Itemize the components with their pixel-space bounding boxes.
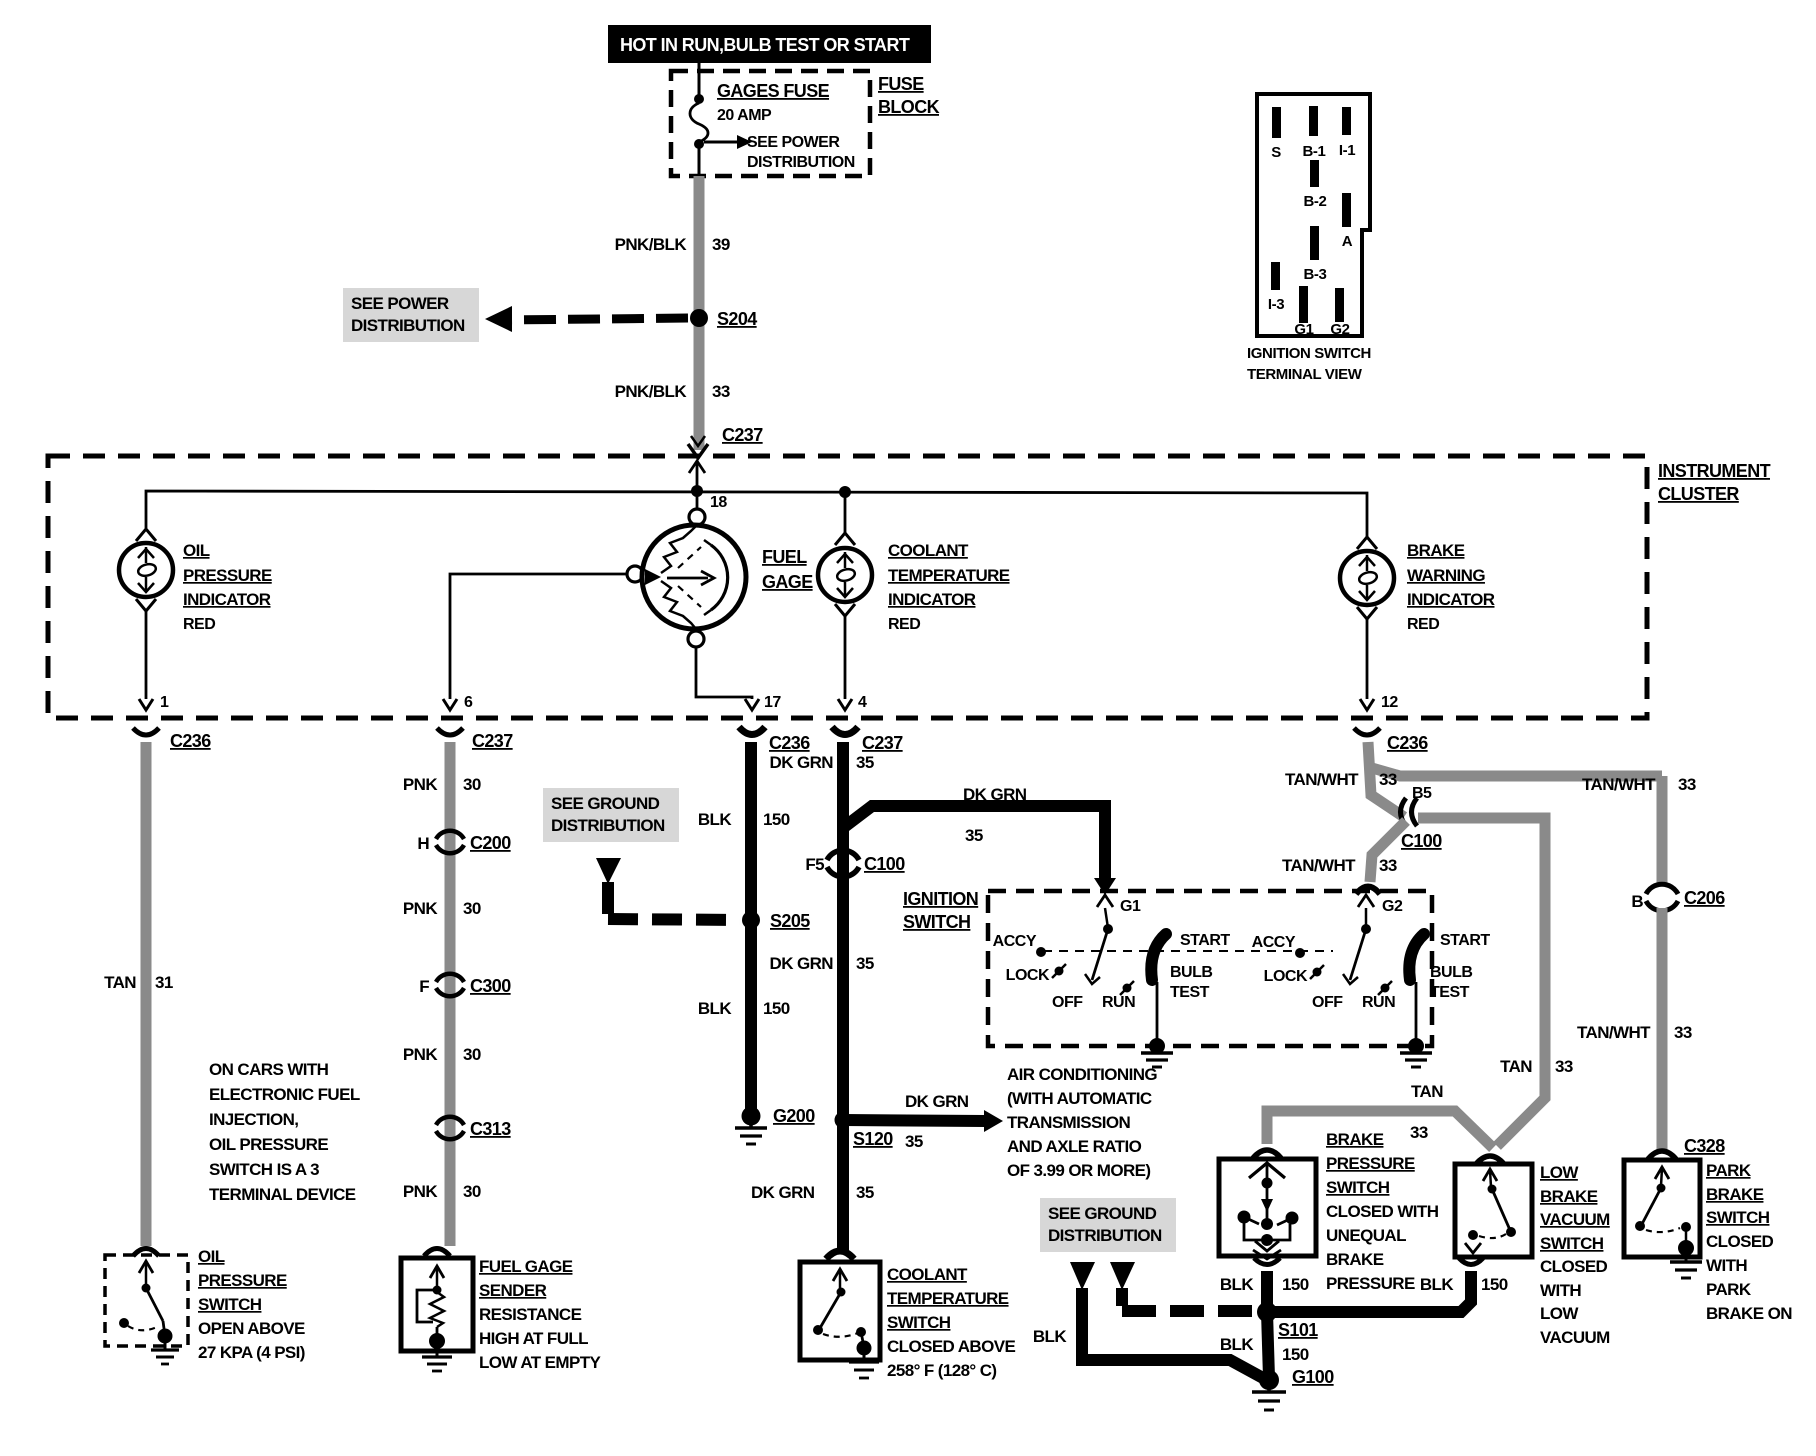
wire DK GRN 35 from pin4 [770,742,874,1252]
wire PNK 30 seg2 [403,899,481,918]
svg-text:30: 30 [463,1045,481,1064]
svg-text:PARK: PARK [1706,1280,1752,1299]
svg-text:SWITCH IS A 3: SWITCH IS A 3 [209,1160,319,1179]
svg-text:BULB: BULB [1170,964,1212,981]
svg-text:C100: C100 [864,854,905,874]
svg-text:AIR CONDITIONING: AIR CONDITIONING [1007,1065,1157,1084]
svg-text:C236: C236 [769,733,810,753]
wire fuel gage left to pin 6 [450,574,627,699]
svg-text:OFF: OFF [1312,994,1343,1011]
svg-text:PNK/BLK: PNK/BLK [615,382,688,401]
connector B5 C100 [1401,785,1443,851]
svg-text:ON CARS WITH: ON CARS WITH [209,1060,329,1079]
svg-text:H: H [417,834,429,853]
svg-text:C236: C236 [170,731,211,751]
svg-text:G2: G2 [1382,898,1403,915]
svg-text:ELECTRONIC FUEL: ELECTRONIC FUEL [209,1085,360,1104]
svg-text:33: 33 [1379,856,1397,875]
svg-text:F: F [419,977,429,996]
svg-text:PNK: PNK [403,1182,438,1201]
svg-text:COOLANT: COOLANT [888,541,969,560]
wire BLK dashed to S101 [1122,1288,1254,1311]
svg-text:DISTRIBUTION: DISTRIBUTION [351,316,465,335]
wire PNK 30 seg3 [403,1045,481,1064]
wire gray to park brake switch [1657,1144,1668,1150]
svg-text:DK GRN: DK GRN [751,1183,815,1202]
svg-text:OF 3.99 OR MORE): OF 3.99 OR MORE) [1007,1161,1150,1180]
svg-text:BLK: BLK [1220,1275,1254,1294]
wire PNK/BLK 39 [615,176,730,450]
svg-text:IGNITION SWITCH: IGNITION SWITCH [1247,345,1371,362]
svg-text:B-3: B-3 [1304,266,1327,283]
svg-text:B-2: B-2 [1304,193,1327,210]
svg-text:C236: C236 [1387,733,1428,753]
ignition switch right ground [1400,982,1432,1067]
svg-text:GAGE: GAGE [762,572,813,592]
svg-text:LOCK: LOCK [1264,968,1308,985]
svg-text:FUEL: FUEL [762,547,807,567]
svg-text:INSTRUMENT: INSTRUMENT [1658,461,1771,481]
arrow to see power distribution [704,134,855,171]
svg-text:ACCY: ACCY [1252,934,1296,951]
svg-text:BLK: BLK [698,810,732,829]
svg-text:C237: C237 [472,731,513,751]
svg-text:G1: G1 [1120,898,1141,915]
svg-text:33: 33 [1674,1023,1692,1042]
fuel gage sender [401,1257,601,1372]
see ground distribution right [1040,1198,1176,1290]
svg-text:150: 150 [763,999,790,1018]
svg-text:G1: G1 [1294,321,1313,338]
svg-text:TEMPERATURE: TEMPERATURE [887,1289,1009,1308]
svg-text:C300: C300 [470,976,511,996]
fuel gage [627,491,813,647]
oil pressure switch [105,1247,305,1364]
connector at coolant temperature switch [826,1251,854,1259]
svg-text:F5: F5 [805,855,824,874]
svg-text:35: 35 [856,1183,874,1202]
svg-text:S120: S120 [853,1129,893,1149]
svg-text:S: S [1271,144,1281,161]
pin 6 [443,694,473,711]
svg-text:C328: C328 [1684,1136,1725,1156]
svg-text:DK GRN: DK GRN [770,753,834,772]
svg-text:BLK: BLK [698,999,732,1018]
pin G1 [1097,895,1141,915]
wire DK GRN 35 branch to ignition G1 [843,785,1116,895]
svg-text:HIGH AT FULL: HIGH AT FULL [479,1329,588,1348]
svg-text:OPEN ABOVE: OPEN ABOVE [198,1319,305,1338]
svg-text:PNK: PNK [403,1045,438,1064]
svg-text:RUN: RUN [1102,994,1135,1011]
svg-text:ACCY: ACCY [993,933,1037,950]
svg-text:TRANSMISSION: TRANSMISSION [1007,1113,1130,1132]
svg-text:TAN: TAN [104,973,136,992]
svg-text:PNK/BLK: PNK/BLK [615,235,688,254]
svg-text:B5: B5 [1412,785,1432,802]
svg-text:27 KPA (4 PSI): 27 KPA (4 PSI) [198,1343,305,1362]
wire BLK to G100 [1033,1288,1263,1378]
oil pressure indicator lamp [119,529,272,699]
svg-text:WITH: WITH [1706,1256,1747,1275]
wire DK GRN 35 seg3 [751,1183,874,1202]
svg-text:BRAKE: BRAKE [1326,1130,1384,1149]
wire TAN 33 to brake pressure switch [1267,1082,1493,1148]
svg-text:OIL PRESSURE: OIL PRESSURE [209,1135,328,1154]
svg-text:INJECTION,: INJECTION, [209,1110,298,1129]
svg-text:6: 6 [464,694,473,711]
svg-text:S204: S204 [717,309,757,329]
svg-text:SEE GROUND: SEE GROUND [1048,1204,1157,1223]
node junction at fuel gage [691,485,703,497]
svg-text:TEST: TEST [1170,984,1210,1001]
connector C206 [1631,884,1725,911]
svg-text:CLOSED WITH: CLOSED WITH [1326,1202,1439,1221]
svg-text:UNEQUAL: UNEQUAL [1326,1226,1406,1245]
svg-text:CLOSED: CLOSED [1706,1232,1774,1251]
svg-text:BULB: BULB [1430,964,1472,981]
svg-text:SEE GROUND: SEE GROUND [551,794,660,813]
fuse GAGES FUSE 20 AMP [690,63,830,176]
ignition switch detent dashed line [1043,950,1333,952]
node junction at coolant indicator [839,486,851,498]
connector C237 top [688,425,763,458]
ignition switch right rotor [1252,908,1396,1011]
coolant temperature switch [800,1262,1015,1380]
svg-text:G200: G200 [773,1106,815,1126]
svg-text:WARNING: WARNING [1407,566,1485,585]
wire PNK 30 seg4 [403,1182,481,1201]
svg-text:39: 39 [712,235,730,254]
svg-text:TAN/WHT: TAN/WHT [1282,856,1356,875]
wire BLK 150 S101 to G100 [1220,1312,1309,1378]
connector below low brake vacuum switch [1459,1258,1483,1265]
wire TAN 31 [104,742,173,1246]
connector C236 pin1 [133,728,211,751]
svg-text:30: 30 [463,775,481,794]
svg-text:PRESSURE: PRESSURE [1326,1274,1415,1293]
svg-text:RED: RED [183,616,215,633]
svg-text:TERMINAL VIEW: TERMINAL VIEW [1247,366,1363,383]
svg-text:G100: G100 [1292,1367,1334,1387]
wire TAN/WHT from B5 right and down [1418,818,1573,1146]
svg-text:FUSE: FUSE [878,74,924,94]
svg-text:G2: G2 [1330,321,1349,338]
svg-text:PRESSURE: PRESSURE [198,1271,287,1290]
svg-text:35: 35 [856,954,874,973]
svg-text:LOW: LOW [1540,1163,1579,1182]
svg-text:SENDER: SENDER [479,1281,547,1300]
svg-text:RED: RED [888,616,920,633]
wire far right vertical to C206 [1657,776,1668,886]
svg-text:BLOCK: BLOCK [878,97,940,117]
svg-text:C237: C237 [722,425,763,445]
svg-text:LOW AT EMPTY: LOW AT EMPTY [479,1353,601,1372]
svg-text:C200: C200 [470,833,511,853]
svg-text:DK GRN: DK GRN [963,785,1027,804]
pin 1 [139,694,169,711]
svg-text:31: 31 [155,973,173,992]
connector C313 [436,1117,511,1140]
svg-text:BLK: BLK [1220,1335,1254,1354]
connector at fuel gage sender [424,1249,450,1257]
svg-text:SWITCH: SWITCH [903,912,970,932]
connector at low brake vacuum switch [1476,1156,1504,1164]
wire TAN/WHT 33 to G2 [1282,821,1406,882]
svg-text:BRAKE: BRAKE [1407,541,1465,560]
ignition switch box [903,889,1432,1046]
svg-text:SWITCH: SWITCH [887,1313,951,1332]
ground G100 [1252,1367,1334,1410]
svg-text:150: 150 [763,810,790,829]
pin 4 [838,694,867,711]
svg-text:BLK: BLK [1420,1275,1454,1294]
svg-text:BRAKE: BRAKE [1706,1185,1764,1204]
svg-text:DISTRIBUTION: DISTRIBUTION [1048,1226,1162,1245]
svg-text:PRESSURE: PRESSURE [183,566,272,585]
instrument cluster box [48,456,1771,718]
svg-text:30: 30 [463,899,481,918]
svg-text:SWITCH: SWITCH [198,1295,262,1314]
svg-text:VACUUM: VACUUM [1540,1328,1610,1347]
svg-text:30: 30 [463,1182,481,1201]
svg-text:35: 35 [856,753,874,772]
ignition switch terminal view [1247,94,1371,383]
svg-text:I-3: I-3 [1268,296,1284,313]
wire TAN/WHT 33 from C236 pin12 [1285,742,1696,817]
connector at oil pressure switch [133,1249,159,1257]
wire BLK 150 seg2 [698,999,790,1018]
svg-text:OIL: OIL [183,541,210,560]
svg-text:WITH: WITH [1540,1281,1581,1300]
pin G2 [1358,895,1403,915]
svg-text:AND AXLE RATIO: AND AXLE RATIO [1007,1137,1142,1156]
svg-text:SEE POWER: SEE POWER [747,134,840,151]
svg-text:C206: C206 [1684,888,1725,908]
svg-text:C313: C313 [470,1119,511,1139]
wire TAN/WHT 33 to C328 [1577,908,1692,1144]
svg-text:CLOSED ABOVE: CLOSED ABOVE [887,1337,1015,1356]
ignition switch left START lever [1151,932,1230,1001]
wire dashed arrow to see power distribution [343,288,688,342]
connector below brake pressure switch [1254,1258,1280,1265]
svg-text:C100: C100 [1401,831,1442,851]
svg-text:18: 18 [710,494,727,511]
note air conditioning [1007,1065,1157,1180]
svg-text:150: 150 [1282,1345,1309,1364]
svg-text:B-1: B-1 [1303,143,1326,160]
svg-text:TAN: TAN [1411,1082,1443,1101]
svg-text:DISTRIBUTION: DISTRIBUTION [551,816,665,835]
pin 12 [1360,694,1398,711]
connector C236 pin12 [1354,728,1428,753]
svg-text:35: 35 [965,826,983,845]
svg-text:BRAKE: BRAKE [1326,1250,1384,1269]
coolant temperature indicator lamp [818,493,1010,699]
fuse block box [671,71,940,176]
svg-text:150: 150 [1481,1275,1508,1294]
connector C237 pin6 [437,728,513,751]
svg-text:PNK: PNK [403,775,438,794]
pin 17 [745,694,781,711]
svg-text:1: 1 [160,694,169,711]
svg-text:20 AMP: 20 AMP [717,107,772,124]
svg-text:TAN/WHT: TAN/WHT [1577,1023,1651,1042]
svg-text:33: 33 [1410,1123,1428,1142]
svg-text:RUN: RUN [1362,994,1395,1011]
svg-text:PARK: PARK [1706,1161,1752,1180]
svg-text:LOCK: LOCK [1006,967,1050,984]
svg-text:258° F (128° C): 258° F (128° C) [887,1361,996,1380]
svg-text:SEE POWER: SEE POWER [351,294,449,313]
connector C237 pin4 heavy [832,727,903,753]
connector C100 on DK GRN [805,850,905,877]
connector C236 pin17 heavy [739,727,810,753]
wire fuel gage bottom to pin 17 [696,647,752,699]
connector C328 [1648,1136,1725,1159]
svg-text:SWITCH: SWITCH [1540,1234,1604,1253]
svg-text:PRESSURE: PRESSURE [1326,1154,1415,1173]
ignition switch left rotor [993,908,1136,1011]
svg-text:LOW: LOW [1540,1304,1579,1323]
svg-text:OFF: OFF [1052,994,1083,1011]
see ground distribution left [543,788,740,920]
note text on cars with EFI [209,1060,360,1204]
bus wire inside cluster [146,491,1367,538]
svg-text:DISTRIBUTION: DISTRIBUTION [747,154,855,171]
svg-text:FUEL GAGE: FUEL GAGE [479,1257,573,1276]
svg-text:SWITCH: SWITCH [1326,1178,1390,1197]
svg-text:(WITH AUTOMATIC: (WITH AUTOMATIC [1007,1089,1152,1108]
svg-text:SWITCH: SWITCH [1706,1208,1770,1227]
park brake switch [1624,1160,1792,1323]
svg-text:TAN: TAN [1500,1057,1532,1076]
brake pressure switch [1219,1130,1439,1293]
ignition switch right START lever [1409,932,1490,1001]
svg-text:INDICATOR: INDICATOR [1407,590,1495,609]
splice S204 [690,309,757,329]
power banner HOT IN RUN [608,25,931,63]
svg-text:IGNITION: IGNITION [903,889,978,909]
pin 18 arrow into cluster [689,461,727,511]
svg-text:INDICATOR: INDICATOR [183,590,271,609]
svg-text:RED: RED [1407,616,1439,633]
svg-text:BRAKE: BRAKE [1540,1187,1598,1206]
wire BLK 150 from pin17 [698,742,790,1116]
svg-text:17: 17 [764,694,781,711]
wire DK GRN 35 seg2 [770,954,874,973]
svg-text:4: 4 [858,694,867,711]
svg-text:INDICATOR: INDICATOR [888,590,976,609]
svg-text:RESISTANCE: RESISTANCE [479,1305,582,1324]
ground G200 [735,1106,815,1144]
svg-text:A: A [1342,233,1353,250]
splice S205 [742,911,810,931]
brake warning indicator lamp [1340,537,1495,699]
svg-text:S205: S205 [770,911,810,931]
svg-text:START: START [1180,932,1230,949]
svg-text:TEMPERATURE: TEMPERATURE [888,566,1010,585]
connector C200 [417,831,511,854]
wire BLK 150 low vacuum to S101 [1267,1271,1508,1312]
svg-text:TERMINAL DEVICE: TERMINAL DEVICE [209,1185,356,1204]
svg-text:BRAKE ON: BRAKE ON [1706,1304,1792,1323]
svg-text:TAN/WHT: TAN/WHT [1285,770,1359,789]
splice S101 [1257,1302,1318,1340]
svg-text:DK GRN: DK GRN [770,954,834,973]
svg-text:35: 35 [905,1132,923,1151]
svg-text:HOT IN RUN,BULB TEST OR START: HOT IN RUN,BULB TEST OR START [620,35,910,55]
svg-text:33: 33 [1379,770,1397,789]
svg-text:33: 33 [712,382,730,401]
svg-text:OIL: OIL [198,1247,225,1266]
svg-text:VACUUM: VACUUM [1540,1210,1610,1229]
svg-text:B: B [1631,892,1643,911]
svg-text:S101: S101 [1278,1320,1318,1340]
svg-text:DK GRN: DK GRN [905,1092,969,1111]
svg-text:BLK: BLK [1033,1327,1067,1346]
svg-text:CLOSED: CLOSED [1540,1257,1608,1276]
wire BLK 150 brake pressure to S101 [1220,1271,1309,1312]
svg-text:COOLANT: COOLANT [887,1265,968,1284]
svg-text:START: START [1440,932,1490,949]
svg-text:12: 12 [1381,694,1398,711]
svg-text:33: 33 [1555,1057,1573,1076]
svg-text:TEST: TEST [1430,984,1470,1001]
svg-text:GAGES FUSE: GAGES FUSE [717,81,830,101]
splice S120 with branch arrow [835,1092,1004,1151]
connector C300 [419,974,511,997]
svg-text:PNK: PNK [403,899,438,918]
ignition switch left ground [1141,982,1173,1067]
svg-text:TAN/WHT: TAN/WHT [1582,775,1656,794]
svg-text:C237: C237 [862,733,903,753]
svg-text:I-1: I-1 [1339,142,1355,159]
wire PNK/BLK 33 [615,382,730,401]
svg-text:CLUSTER: CLUSTER [1658,484,1739,504]
low brake vacuum switch [1455,1163,1610,1347]
wire PNK 30 [403,742,481,1246]
connector at brake pressure switch [1253,1150,1281,1158]
svg-text:150: 150 [1282,1275,1309,1294]
svg-text:33: 33 [1678,775,1696,794]
connector at ignition G2 [1356,887,1380,895]
